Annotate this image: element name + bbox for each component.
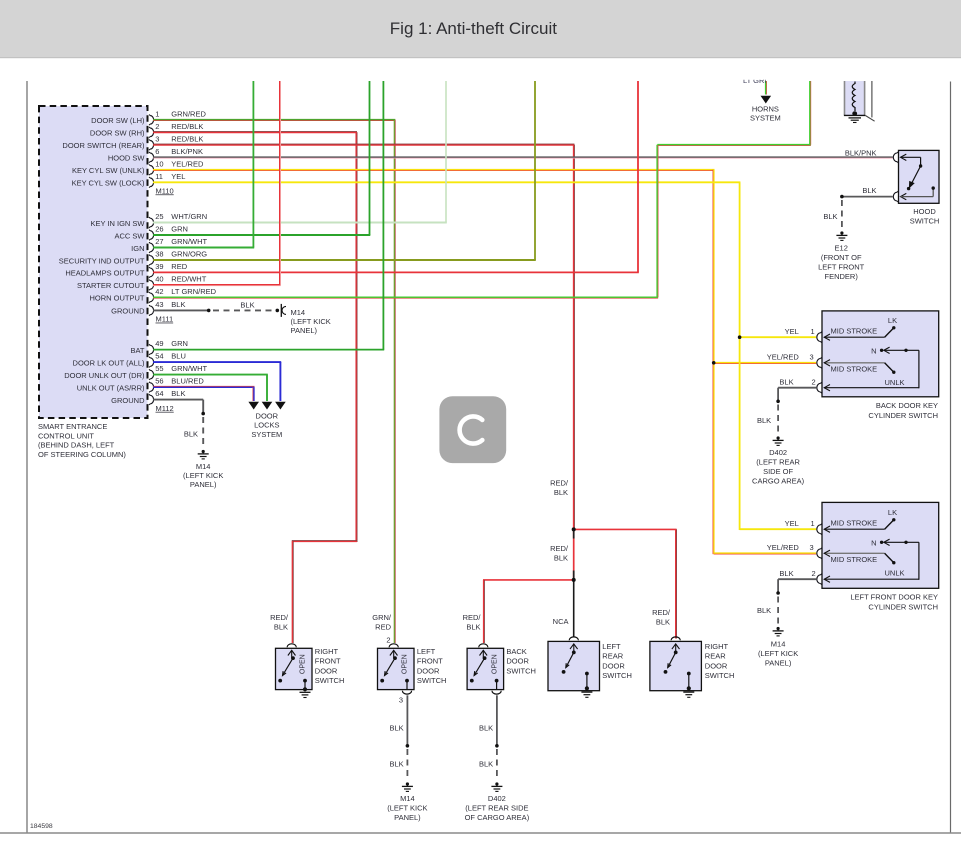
labels YEL 1 at back door key cyl (785, 327, 815, 336)
svg-text:DOOR: DOOR (705, 661, 728, 670)
svg-text:1: 1 (811, 519, 815, 528)
left front door key cylinder switch box (822, 502, 939, 588)
right rear door switch ground symbol (683, 692, 694, 697)
label BLK at hood switch (862, 186, 876, 195)
svg-text:LK: LK (888, 508, 897, 517)
left front door switch OPEN label (402, 654, 409, 674)
svg-text:MID STROKE: MID STROKE (831, 365, 878, 374)
node junction on RED/BLK at mid page (572, 528, 576, 532)
svg-text:BLK: BLK (466, 623, 480, 632)
svg-text:3: 3 (810, 352, 814, 361)
svg-text:RIGHT: RIGHT (705, 642, 729, 651)
svg-text:IGN: IGN (131, 244, 144, 253)
label GRN/RED left front (372, 613, 392, 632)
svg-text:BLK: BLK (240, 300, 254, 309)
left front door switch caption (417, 647, 447, 685)
left front door key cylinder switch N label (871, 538, 876, 547)
wire pin 56 BLU/RED to door locks (153, 386, 255, 401)
svg-text:GRN/WHT: GRN/WHT (171, 364, 207, 373)
svg-text:56: 56 (155, 377, 163, 386)
label D402 (LEFT REAR SIDE OF CARGO AREA) bottom (465, 794, 530, 822)
back door key cylinder switch N contact (880, 347, 919, 388)
left front door switch switch arm (380, 650, 397, 682)
svg-text:BLU: BLU (171, 352, 186, 361)
back door key cylinder switch LK label (888, 316, 897, 325)
svg-text:GROUND: GROUND (111, 307, 145, 316)
svg-text:BLK: BLK (757, 606, 771, 615)
right front door switch box (276, 648, 313, 689)
back door switch bottom bracket (492, 691, 501, 694)
svg-text:ACC SW: ACC SW (115, 231, 146, 240)
clipped wire label above horns stub (743, 76, 773, 85)
svg-text:GRN: GRN (171, 225, 188, 234)
svg-text:OPEN: OPEN (491, 654, 498, 674)
svg-text:49: 49 (155, 339, 163, 348)
label BLK on pin 64 dashed wire (184, 429, 198, 438)
svg-text:RED/: RED/ (550, 544, 569, 553)
svg-text:BLK: BLK (656, 618, 670, 627)
wire pin 25 WHT/GRN off page top (153, 81, 447, 223)
svg-text:26: 26 (155, 225, 163, 234)
label M14 (LEFT KICK PANEL) ground (183, 462, 223, 489)
svg-text:25: 25 (155, 212, 163, 221)
svg-text:N: N (871, 538, 876, 547)
svg-text:BLK: BLK (862, 186, 876, 195)
left rear door switch top bracket (569, 637, 578, 640)
wire pin 2 RED/BLK to right front door switch (153, 132, 357, 644)
svg-text:PANEL): PANEL) (394, 813, 421, 822)
svg-text:OF CARGO AREA): OF CARGO AREA) (465, 813, 530, 822)
svg-text:BLK: BLK (390, 760, 404, 769)
left front door switch contact through bottom (405, 679, 409, 690)
svg-text:BLK: BLK (479, 723, 493, 732)
svg-text:REAR: REAR (602, 652, 623, 661)
diagram right border (950, 82, 952, 834)
hood switch bottom contact (893, 186, 935, 202)
svg-text:(LEFT KICK: (LEFT KICK (758, 649, 798, 658)
diagram left border (26, 81, 28, 833)
svg-text:BLK: BLK (554, 554, 568, 563)
svg-text:184598: 184598 (30, 823, 53, 830)
svg-text:LEFT: LEFT (602, 642, 621, 651)
left rear door switch contact to internal ground (585, 672, 589, 691)
right rear door switch caption (705, 642, 735, 680)
svg-text:RED/: RED/ (270, 613, 289, 622)
svg-text:UNLK: UNLK (885, 378, 905, 387)
svg-text:M14: M14 (771, 640, 786, 649)
back door key cylinder switch caption (868, 401, 938, 420)
svg-text:2: 2 (812, 378, 816, 387)
wire pin 3 RED/BLK down centre (153, 144, 575, 529)
svg-text:MID STROKE: MID STROKE (831, 519, 878, 528)
svg-text:CYLINDER SWITCH: CYLINDER SWITCH (868, 602, 938, 611)
label BLK upper left chain (390, 723, 404, 732)
svg-text:SWITCH: SWITCH (602, 671, 632, 680)
svg-text:BLK: BLK (184, 429, 198, 438)
left rear door switch box (548, 641, 600, 690)
left front door key cylinder switch LK label (888, 508, 897, 517)
node junction YEL (738, 335, 742, 339)
hood switch box (899, 150, 940, 203)
svg-text:OPEN: OPEN (300, 654, 307, 674)
label RED/BLK back door (463, 613, 482, 632)
svg-text:OF STEERING COLUMN): OF STEERING COLUMN) (38, 450, 126, 459)
relay coil (852, 82, 857, 117)
svg-text:BLK: BLK (554, 488, 568, 497)
wire LT GRN/RED stub to horns system (765, 81, 768, 95)
svg-text:42: 42 (155, 287, 163, 296)
hood switch top contact (901, 154, 923, 168)
svg-text:YEL/RED: YEL/RED (767, 543, 800, 552)
svg-text:55: 55 (155, 364, 163, 373)
ground M14 below control unit (198, 450, 209, 459)
svg-text:HOOD: HOOD (913, 207, 936, 216)
page curl line right of relay (865, 81, 874, 121)
back door key cylinder switch MID STROKE lower label (831, 365, 878, 374)
wire BLK from hood switch to ground (840, 195, 893, 230)
label pin 3 below left front door switch (399, 695, 403, 704)
svg-text:SWITCH: SWITCH (910, 217, 940, 226)
wire pin 10 YEL/RED to key cylinder switches (153, 170, 816, 554)
svg-text:2: 2 (155, 122, 159, 131)
wire BLK below left front door switch (406, 695, 410, 780)
wire BLK from back door key cyl pin 2 (776, 388, 816, 435)
back door switch contact through bottom (495, 679, 499, 690)
left front door key cylinder switch pin 2 contact (817, 574, 919, 585)
right rear door switch box (650, 641, 702, 690)
svg-text:YEL: YEL (171, 172, 185, 181)
label BLK on hood switch ground wire (823, 212, 837, 221)
svg-text:6: 6 (155, 147, 159, 156)
svg-text:38: 38 (155, 250, 163, 259)
right front door switch top bracket (287, 644, 296, 647)
svg-text:(LEFT KICK: (LEFT KICK (291, 317, 331, 326)
svg-text:CONTROL UNIT: CONTROL UNIT (38, 431, 94, 440)
back door key cylinder switch pin 2 contact (817, 382, 919, 393)
right front door switch caption (315, 647, 345, 685)
svg-text:RED: RED (171, 262, 187, 271)
svg-text:FENDER): FENDER) (825, 272, 859, 281)
back door key cylinder switch MID STROKE upper label (831, 327, 878, 336)
svg-text:DOOR SW (RH): DOOR SW (RH) (90, 129, 145, 138)
label BLK lower left chain (390, 760, 404, 769)
node junction YEL/RED (712, 361, 716, 365)
svg-text:27: 27 (155, 237, 163, 246)
svg-text:DOOR: DOOR (417, 666, 440, 675)
left rear door switch switch arm (562, 644, 578, 674)
right rear door switch top bracket (671, 637, 680, 640)
svg-text:LEFT: LEFT (417, 647, 436, 656)
svg-text:SWITCH: SWITCH (506, 666, 536, 675)
svg-text:GRN: GRN (171, 339, 188, 348)
right rear door switch switch arm (664, 644, 680, 674)
left rear door switch ground symbol (581, 692, 592, 697)
left front door key cylinder switch MID STROKE lower label (831, 555, 878, 564)
wire pin 1 GRN/RED to left front door switch (153, 120, 395, 643)
label RED/BLK right rear (652, 608, 671, 627)
control unit caption (38, 422, 126, 459)
wire pin 64 BLK to ground (153, 400, 205, 448)
svg-text:RED/BLK: RED/BLK (171, 122, 203, 131)
relay internal ground (849, 118, 862, 123)
svg-text:DOOR SW (LH): DOOR SW (LH) (91, 116, 145, 125)
svg-text:HEADLAMPS OUTPUT: HEADLAMPS OUTPUT (65, 269, 145, 278)
svg-text:HOOD SW: HOOD SW (108, 154, 146, 163)
svg-text:40: 40 (155, 275, 163, 284)
svg-text:KEY CYL SW (LOCK): KEY CYL SW (LOCK) (72, 179, 145, 188)
label BLK back door key cyl ground wire (757, 416, 771, 425)
back door key cylinder switch UNLK label (885, 378, 905, 387)
svg-text:Fig 1: Anti-theft Circuit: Fig 1: Anti-theft Circuit (390, 19, 558, 38)
svg-text:RED/: RED/ (550, 479, 569, 488)
svg-text:N: N (871, 346, 876, 355)
svg-text:MID STROKE: MID STROKE (831, 327, 878, 336)
back door switch top bracket (479, 644, 488, 647)
svg-text:GRN/ORG: GRN/ORG (171, 250, 207, 259)
svg-text:LK: LK (888, 316, 897, 325)
wire pin 43 BLK with splice to M14 (153, 309, 279, 313)
left front door key cylinder switch pin 3 contact (817, 548, 896, 565)
svg-text:RED/: RED/ (463, 613, 482, 622)
svg-text:3: 3 (155, 134, 159, 143)
node junction 2 on RED/BLK (572, 578, 576, 582)
svg-text:11: 11 (155, 172, 163, 181)
svg-text:39: 39 (155, 262, 163, 271)
wire pin 6 BLK/PNK to hood switch (153, 156, 893, 159)
left rear door switch caption (602, 642, 632, 680)
label M14 (LEFT KICK PANEL) beside pin 43 (291, 308, 331, 335)
svg-text:BACK: BACK (506, 647, 526, 656)
left front door switch bottom bracket (402, 691, 411, 694)
svg-text:SIDE OF: SIDE OF (763, 467, 793, 476)
label DOOR LOCKS SYSTEM (251, 411, 282, 439)
svg-text:10: 10 (155, 159, 163, 168)
ground D402 bottom (491, 782, 502, 791)
svg-text:M112: M112 (156, 404, 174, 413)
svg-text:KEY IN IGN SW: KEY IN IGN SW (90, 219, 145, 228)
label RED/BLK right front (270, 613, 289, 632)
right rear door switch contact to internal ground (687, 672, 691, 691)
labels BLK 2 at left front key cyl (779, 569, 815, 578)
left front door key cylinder switch pin 1 contact (817, 518, 896, 535)
label BLK lower back chain (479, 760, 493, 769)
figure number 184598 (30, 823, 53, 830)
svg-text:BLK: BLK (171, 389, 185, 398)
svg-text:(LEFT KICK: (LEFT KICK (387, 804, 427, 813)
left front door switch box (378, 648, 415, 689)
wire pin 55 GRN/WHT to door locks (153, 375, 268, 401)
back door switch box (467, 648, 504, 689)
label M14 (LEFT KICK PANEL) right (758, 640, 798, 668)
svg-text:UNLK OUT (AS/RR): UNLK OUT (AS/RR) (77, 383, 145, 392)
svg-text:CYLINDER SWITCH: CYLINDER SWITCH (868, 411, 938, 420)
svg-text:WHT/GRN: WHT/GRN (171, 212, 207, 221)
wire pin 40 RED/WHT off page top (153, 81, 281, 286)
svg-text:(FRONT OF: (FRONT OF (821, 253, 862, 262)
svg-text:SMART ENTRANCE: SMART ENTRANCE (38, 422, 107, 431)
svg-text:SECURITY IND OUTPUT: SECURITY IND OUTPUT (59, 256, 145, 265)
svg-text:BLK/PNK: BLK/PNK (171, 147, 203, 156)
C refresh icon overlay (439, 396, 506, 463)
svg-text:GRN/: GRN/ (372, 613, 392, 622)
node junction dots redrawn (572, 527, 576, 582)
back door switch OPEN label (491, 654, 498, 674)
back door key cylinder switch pin 3 contact (817, 357, 896, 374)
wire pin 11 YEL to key cylinder switches (153, 182, 816, 530)
wire BLK from left front key cyl pin 2 (776, 579, 816, 625)
svg-text:DOOR: DOOR (256, 411, 279, 420)
svg-text:2: 2 (812, 569, 816, 578)
svg-text:REAR: REAR (705, 652, 726, 661)
label RED/BLK upper centre (550, 479, 569, 498)
wire branch RED/BLK to right rear door switch (574, 529, 677, 638)
svg-text:SWITCH: SWITCH (705, 671, 735, 680)
diagram bottom border (0, 832, 961, 834)
left front door key cylinder switch N contact (880, 539, 919, 580)
label HOOD SWITCH (910, 207, 940, 225)
svg-text:M14: M14 (196, 462, 211, 471)
header title bar (0, 0, 961, 58)
svg-text:NCA: NCA (553, 617, 569, 626)
svg-text:YEL/RED: YEL/RED (171, 159, 204, 168)
wire pin 38 GRN/ORG off page top (153, 81, 536, 260)
right front door switch switch arm (278, 650, 295, 682)
ground M14 left front key cyl (773, 627, 784, 636)
label BLK/PNK at hood switch (845, 149, 877, 158)
svg-text:YEL: YEL (785, 519, 799, 528)
svg-text:SWITCH: SWITCH (315, 676, 345, 685)
svg-text:GRN/WHT: GRN/WHT (171, 237, 207, 246)
svg-text:RED: RED (375, 623, 391, 632)
svg-text:1: 1 (811, 327, 815, 336)
svg-text:RIGHT: RIGHT (315, 647, 339, 656)
svg-text:GRN/RED: GRN/RED (171, 109, 206, 118)
ground D402 back door key cyl (773, 436, 784, 445)
label BLK left front key cyl ground wire (757, 606, 771, 615)
svg-text:M111: M111 (156, 315, 174, 324)
svg-text:BLK: BLK (171, 300, 185, 309)
labels BLK 2 at back door key cyl (779, 378, 815, 387)
horns system arrow (761, 96, 772, 104)
svg-text:M14: M14 (291, 308, 306, 317)
svg-text:BLU/RED: BLU/RED (171, 377, 204, 386)
svg-text:54: 54 (155, 352, 163, 361)
left front door switch top bracket (389, 644, 398, 647)
svg-text:BLK: BLK (823, 212, 837, 221)
svg-text:LOCKS: LOCKS (254, 421, 279, 430)
back door switch switch arm (470, 650, 487, 682)
wire NCA to left rear door switch (573, 580, 575, 638)
wire pin 42 LT GRN/RED to horns (153, 81, 811, 298)
hood switch blade (907, 166, 921, 190)
label BLK on pin 43 dashed section (240, 300, 254, 309)
svg-text:(BEHIND DASH, LEFT: (BEHIND DASH, LEFT (38, 441, 115, 450)
ground E12 (836, 231, 847, 240)
svg-text:BLK: BLK (779, 569, 793, 578)
svg-text:2: 2 (386, 636, 390, 645)
svg-text:43: 43 (155, 300, 163, 309)
label D402 (LEFT REAR SIDE OF CARGO AREA) (752, 448, 805, 486)
svg-text:YEL/RED: YEL/RED (767, 352, 800, 361)
ground M14 bottom (402, 782, 413, 791)
wire pin 27 GRN/WHT off page top (153, 81, 254, 248)
back door key cylinder switch N label (871, 346, 876, 355)
left front door key cylinder switch UNLK label (885, 568, 905, 577)
svg-text:KEY CYL SW (UNLK): KEY CYL SW (UNLK) (72, 166, 145, 175)
wire pin 39 RED off page top (153, 81, 639, 272)
svg-text:M14: M14 (400, 794, 415, 803)
svg-text:HORN OUTPUT: HORN OUTPUT (90, 294, 145, 303)
svg-text:(LEFT REAR: (LEFT REAR (756, 458, 800, 467)
control unit connector label M112 (156, 404, 174, 413)
wire RED/BLK between junctions (573, 529, 575, 580)
svg-text:STARTER CUTOUT: STARTER CUTOUT (77, 281, 145, 290)
svg-text:OPEN: OPEN (402, 654, 409, 674)
svg-text:RED/: RED/ (652, 608, 671, 617)
svg-text:PANEL): PANEL) (190, 480, 217, 489)
svg-text:FRONT: FRONT (315, 657, 341, 666)
labels YEL 1 at left front key cyl (785, 519, 815, 528)
svg-text:GROUND: GROUND (111, 396, 145, 405)
label NCA (553, 617, 569, 626)
svg-text:DOOR: DOOR (315, 666, 338, 675)
svg-text:BACK DOOR KEY: BACK DOOR KEY (876, 401, 938, 410)
svg-text:FRONT: FRONT (417, 657, 443, 666)
connector symbol M14 on pin 43 (281, 304, 286, 317)
label pin 2 at left front door switch (386, 636, 390, 645)
svg-text:D402: D402 (488, 794, 506, 803)
wire BLK below back door switch (495, 695, 499, 780)
svg-text:DOOR UNLK OUT (DR): DOOR UNLK OUT (DR) (64, 371, 145, 380)
svg-text:3: 3 (810, 543, 814, 552)
label E12 (FRONT OF LEFT FRONT FENDER) (818, 244, 865, 282)
svg-text:SYSTEM: SYSTEM (251, 430, 282, 439)
svg-text:(LEFT REAR SIDE: (LEFT REAR SIDE (465, 804, 528, 813)
wire branch RED/BLK to back door switch (483, 580, 574, 643)
svg-text:BLK: BLK (757, 416, 771, 425)
labels YEL/RED 3 at left front key cyl (767, 543, 814, 552)
svg-text:UNLK: UNLK (885, 568, 905, 577)
svg-text:LEFT FRONT: LEFT FRONT (818, 263, 865, 272)
relay fragment (cut off at top) (844, 81, 865, 115)
svg-text:MID STROKE: MID STROKE (831, 555, 878, 564)
pin number and wire colour labels (155, 109, 216, 398)
hood switch pin bracket BLK/PNK (893, 152, 898, 163)
svg-text:BLK: BLK (390, 723, 404, 732)
label BLK upper back chain (479, 723, 493, 732)
left front door key cylinder switch MID STROKE upper label (831, 519, 878, 528)
svg-text:E12: E12 (835, 244, 848, 253)
svg-text:BLK: BLK (779, 378, 793, 387)
svg-text:LT GRN/RED: LT GRN/RED (171, 287, 216, 296)
left front door key cylinder switch caption (850, 593, 938, 612)
svg-text:PANEL): PANEL) (765, 659, 792, 668)
svg-text:SYSTEM: SYSTEM (750, 114, 781, 123)
svg-text:1: 1 (155, 109, 159, 118)
wire pin 49 GRN off page top (153, 81, 384, 350)
svg-text:BAT: BAT (130, 346, 144, 355)
svg-text:BLK: BLK (274, 623, 288, 632)
label RED/BLK lower centre (550, 544, 569, 563)
control unit connector label M110 (156, 186, 174, 195)
svg-text:PANEL): PANEL) (291, 326, 318, 335)
svg-text:D402: D402 (769, 448, 787, 457)
right front door switch ground symbol (300, 692, 311, 697)
svg-text:BLK/PNK: BLK/PNK (845, 149, 877, 158)
label M14 (LEFT KICK PANEL) bottom (387, 794, 427, 822)
svg-text:DOOR LK OUT (ALL): DOOR LK OUT (ALL) (73, 358, 145, 367)
svg-text:DOOR SWITCH (REAR): DOOR SWITCH (REAR) (62, 141, 145, 150)
